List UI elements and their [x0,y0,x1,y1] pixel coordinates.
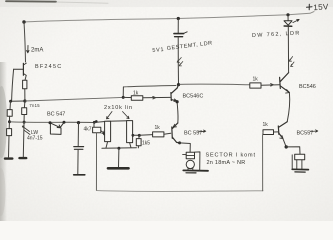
wire: bus corner down to 4k7 [93,123,95,128]
node: junction dot zener tap [177,17,180,20]
wire: feedback right vertical [262,132,264,191]
wire: base lead Q5 [261,84,280,86]
node: dot Q3 collector junction [177,83,180,86]
node: dot Q3 base node [122,96,125,99]
meter body (oval) [186,160,194,168]
wire: ground stem [118,148,120,167]
svg-text:2mA: 2mA [31,48,43,54]
wire: base lead Q3 with arrow [123,97,170,99]
potentiometer P2 (box) [127,121,133,143]
svg-text:1k: 1k [253,77,259,83]
node: junction dot LED tap [286,13,289,16]
transistor Q5 BC546 (NPN right) [280,73,290,94]
wire: LED drop [287,15,289,21]
node: dot Q3 emitter [176,100,179,103]
wire: LED to Q5 collector [287,27,289,73]
wire: zener drop from rail [177,19,179,33]
wire: source lead [25,75,26,80]
node: dot 1k5 top [138,134,141,137]
wire: long link to 1k base resistor [25,97,123,101]
wire: below zener [177,37,179,84]
svg-text:2x10k lin: 2x10k lin [104,105,133,111]
wire: main bus [10,121,95,124]
ground: second rail end bar [20,157,27,159]
svg-text:1k: 1k [155,125,161,131]
label: LED emission arrow [293,19,299,22]
svg-text:1k5: 1k5 [142,141,150,147]
resistor R 4k7 (box) [93,127,101,132]
wire: drop from rail to JFET drain [24,22,26,62]
label: +15V [307,4,313,10]
node: dot BC547 collector [49,121,52,124]
node: dot bus corner [93,121,96,124]
svg-text:BC 547: BC 547 [47,112,65,118]
wire: feedback return left vertical [95,133,97,191]
wire: rail from bus-up corner to Q3 collector [123,86,176,87]
wire: bracket right of meter [195,152,200,170]
wire: wiper arrow into pot P1 [101,131,104,134]
label: light arrows on LED wire [289,57,292,62]
svg-text:SECTOR I komt: SECTOR I komt [206,153,256,159]
wire: below source resistor [24,89,26,101]
node: dot pot P1 wiper [103,133,106,136]
svg-text:BC546: BC546 [299,84,316,90]
wire: wiper to node [133,134,139,136]
resistor R source (box) [23,80,27,89]
wire: collector to vertical drop [180,143,191,152]
resistor R 1k5 (box) [136,139,141,146]
svg-text:4k7: 4k7 [84,127,92,133]
svg-text:1k: 1k [133,90,139,96]
wire: pot bottoms link [102,142,136,149]
resistor R 1k (box, Q4 base) [153,132,164,137]
wire: pots top link [94,121,130,123]
scan edge streak top-left [6,0,56,3]
label: light arrows on LDR wire [177,58,181,63]
ground: under C1 [74,174,85,176]
resistor R 1k (box, Q6 base) [263,130,274,135]
resistor R2 upper (box) [22,108,27,115]
node: dot pots top link [95,120,98,123]
wire: cap branch down [77,123,79,146]
ground: left rail end bar [5,157,12,159]
wire: left rail down [9,101,12,109]
svg-text:1k: 1k [263,122,269,128]
node: dot bus on left rail [8,120,11,123]
label: 2mA current arrow [27,46,29,53]
wire: output to cap [286,147,300,154]
svg-text:2n 18mA ~ NR: 2n 18mA ~ NR [207,160,246,166]
wire: node to 1k base resistor of Q4 [139,134,152,137]
node: dot BC547 emitter [63,121,66,124]
wire: horizontal link at y=101 [11,100,26,102]
svg-text:15V: 15V [313,2,329,12]
ground: under meter [183,169,208,171]
node: dot output [285,145,288,148]
wire: Q6 emitter to output node [283,139,286,147]
svg-text:4n7-15: 4n7-15 [27,136,43,142]
diode LED D1 [284,21,292,26]
node: dot left rail top [9,100,12,103]
wire: bottom return rail [96,190,263,193]
resistor R gate-leak upper (box) [7,110,12,117]
wire: Q4 emitter up to Q3 emitter node [176,102,179,123]
node: dot decoupling cap tap [77,121,80,124]
wire: base lead Q6 [274,131,279,133]
resistor R 1k (box, Q5 base) [250,83,261,88]
svg-text:5V1: 5V1 [152,47,164,54]
capacitor C1 plates [74,147,84,150]
wire: +15V top supply rail [24,12,314,22]
transistor Q3 BC546C (NPN mid) [171,85,179,102]
wire: base lead Q4 [164,133,171,134]
node: dot pot P2 wiper right [132,134,135,137]
node: junction dot top-left [22,20,25,23]
svg-text:BC546C: BC546C [183,94,204,100]
ground: under pots [108,167,129,170]
node: dot bus on second rail [23,121,26,124]
node: dot ground stem [117,147,120,150]
svg-text:BF245C: BF245C [35,64,62,70]
capacitor C2 (box) [295,154,305,160]
label: varactor note LW 4n7-15 with arrow [22,126,30,135]
transistor Q6 BC557 (lower right) [278,122,287,139]
node: dot Q4 collector junction [178,141,181,144]
wire: second rail down [23,101,26,108]
wire: gate lead down [12,69,14,101]
transistor Q1 BF245C (JFET) [14,63,27,75]
resistor R gate-leak lower (box) [7,129,12,136]
ground: under C2 [292,168,308,170]
node: dot source rail top [23,99,26,102]
meter M (box symbol) [186,152,194,159]
potentiometer P1 (box) [105,121,111,141]
svg-text:7n15: 7n15 [29,103,40,108]
wire: corner up from base node [122,87,124,98]
wire: collector rail to right 1k [180,83,250,86]
transistor Q2 BC547 [50,122,64,134]
resistor R 1k (box, Q3 base) [131,96,143,101]
wire: Q5 emitter down to Q6 [287,93,290,122]
diode Z1 5V1 zener [174,33,184,35]
transistor Q4 BC557 (PNP mid) [172,123,179,143]
